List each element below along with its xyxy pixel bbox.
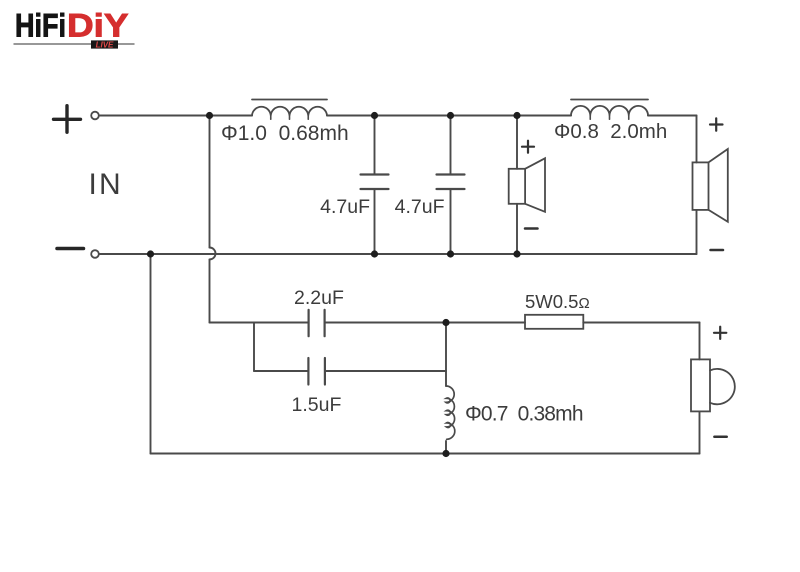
junction bottom rail at C2	[447, 250, 454, 257]
wire node A to resistor	[446, 322, 525, 324]
speaker SP2 minus mark	[711, 249, 724, 252]
wire tweeter top drop	[699, 323, 701, 360]
wire branch to C3	[210, 322, 309, 324]
svg-text:1.5uF: 1.5uF	[292, 394, 342, 416]
speaker SP2 plus mark	[710, 118, 723, 130]
inductor L2 cusp ticks	[590, 116, 629, 120]
wire woofer bottom drop	[696, 210, 698, 254]
speaker SP1 plus mark	[522, 141, 534, 153]
minus input terminal circle	[91, 250, 99, 258]
wire midrange bottom drop	[516, 204, 518, 254]
capacitor C1 top stem	[374, 116, 376, 175]
minus terminal symbol	[57, 247, 84, 251]
wire hop over bottom rail	[210, 248, 216, 260]
svg-text:4.7uF: 4.7uF	[320, 196, 370, 218]
svg-text:2.2uF: 2.2uF	[294, 287, 344, 309]
svg-text:5W0.5Ω: 5W0.5Ω	[525, 291, 590, 312]
resistor R1 body	[525, 315, 583, 329]
speaker SP2 cone	[709, 149, 728, 222]
wire midrange top drop	[516, 116, 518, 169]
capacitor C2 plates	[437, 175, 465, 190]
junction node A	[442, 319, 449, 326]
wire L3 to bottom node	[445, 441, 447, 454]
svg-text:DiY: DiY	[67, 8, 129, 44]
wire lowest rail	[151, 453, 700, 455]
wire tweeter bottom drop	[699, 411, 701, 453]
junction top rail at C1	[371, 112, 378, 119]
capacitor C1 bottom stem	[374, 189, 376, 254]
wire C4 to L3	[325, 370, 446, 372]
wire top rail right	[648, 115, 697, 117]
plus terminal symbol	[54, 106, 81, 133]
wire top rail left	[99, 115, 252, 117]
svg-text:Φ1.0 0.68mh: Φ1.0 0.68mh	[221, 122, 349, 145]
speaker SP1 cone	[525, 158, 545, 212]
svg-text:LIVE: LIVE	[96, 40, 114, 49]
tweeter TW plus mark	[714, 327, 726, 339]
junction bottom rail at left drop	[147, 250, 154, 257]
tweeter TW dome	[710, 369, 735, 404]
junction top rail at SP1	[513, 112, 520, 119]
junction node B bottom	[442, 450, 449, 457]
wire tweeter branch vertical lower	[209, 260, 211, 323]
svg-text:4.7uF: 4.7uF	[395, 196, 445, 218]
svg-text:Φ0.7 0.38mh: Φ0.7 0.38mh	[465, 403, 584, 426]
wire tweeter branch vertical upper	[209, 116, 211, 248]
speaker SP2 body	[693, 162, 709, 210]
capacitor C4 plates	[308, 358, 325, 385]
inductor L2 humps	[571, 106, 648, 116]
wire C3 to node A	[325, 322, 446, 324]
inductor L1 humps	[252, 107, 327, 116]
wire branch to C4	[254, 370, 308, 372]
tweeter TW body	[691, 359, 710, 411]
tweeter TW minus mark	[714, 436, 726, 439]
svg-text:HiFi: HiFi	[15, 8, 66, 44]
wire woofer top drop	[696, 116, 698, 163]
logo LIVE box	[91, 40, 118, 49]
capacitor C2 top stem	[450, 116, 452, 175]
logo HIFIDIY	[15, 8, 129, 44]
wire left drop to lowest rail	[150, 254, 152, 454]
capacitor C1 plates	[361, 175, 389, 190]
inductor L1 core bar	[252, 99, 327, 101]
logo underline	[14, 43, 134, 45]
svg-text:IN: IN	[89, 168, 123, 201]
capacitor C3 plates	[309, 310, 325, 336]
inductor L2 core bar	[571, 99, 648, 101]
speaker SP1 body	[509, 169, 525, 204]
wire node A to L3	[445, 323, 447, 387]
capacitor C2 bottom stem	[450, 189, 452, 254]
junction top rail at branch	[206, 112, 213, 119]
inductor L1 cusp ticks	[271, 116, 309, 120]
wire top rail middle	[327, 115, 571, 117]
junction top rail at C2	[447, 112, 454, 119]
svg-text:Φ0.8 2.0mh: Φ0.8 2.0mh	[554, 120, 667, 143]
plus input terminal circle	[91, 112, 99, 120]
junction bottom rail at C1	[371, 250, 378, 257]
wire resistor to tweeter	[583, 322, 699, 324]
speaker SP1 minus mark	[525, 227, 538, 230]
wire C4 branch drop	[253, 323, 255, 372]
junction bottom rail at SP1	[513, 250, 520, 257]
inductor L3 coil	[446, 386, 455, 439]
wire bottom rail	[99, 253, 697, 255]
